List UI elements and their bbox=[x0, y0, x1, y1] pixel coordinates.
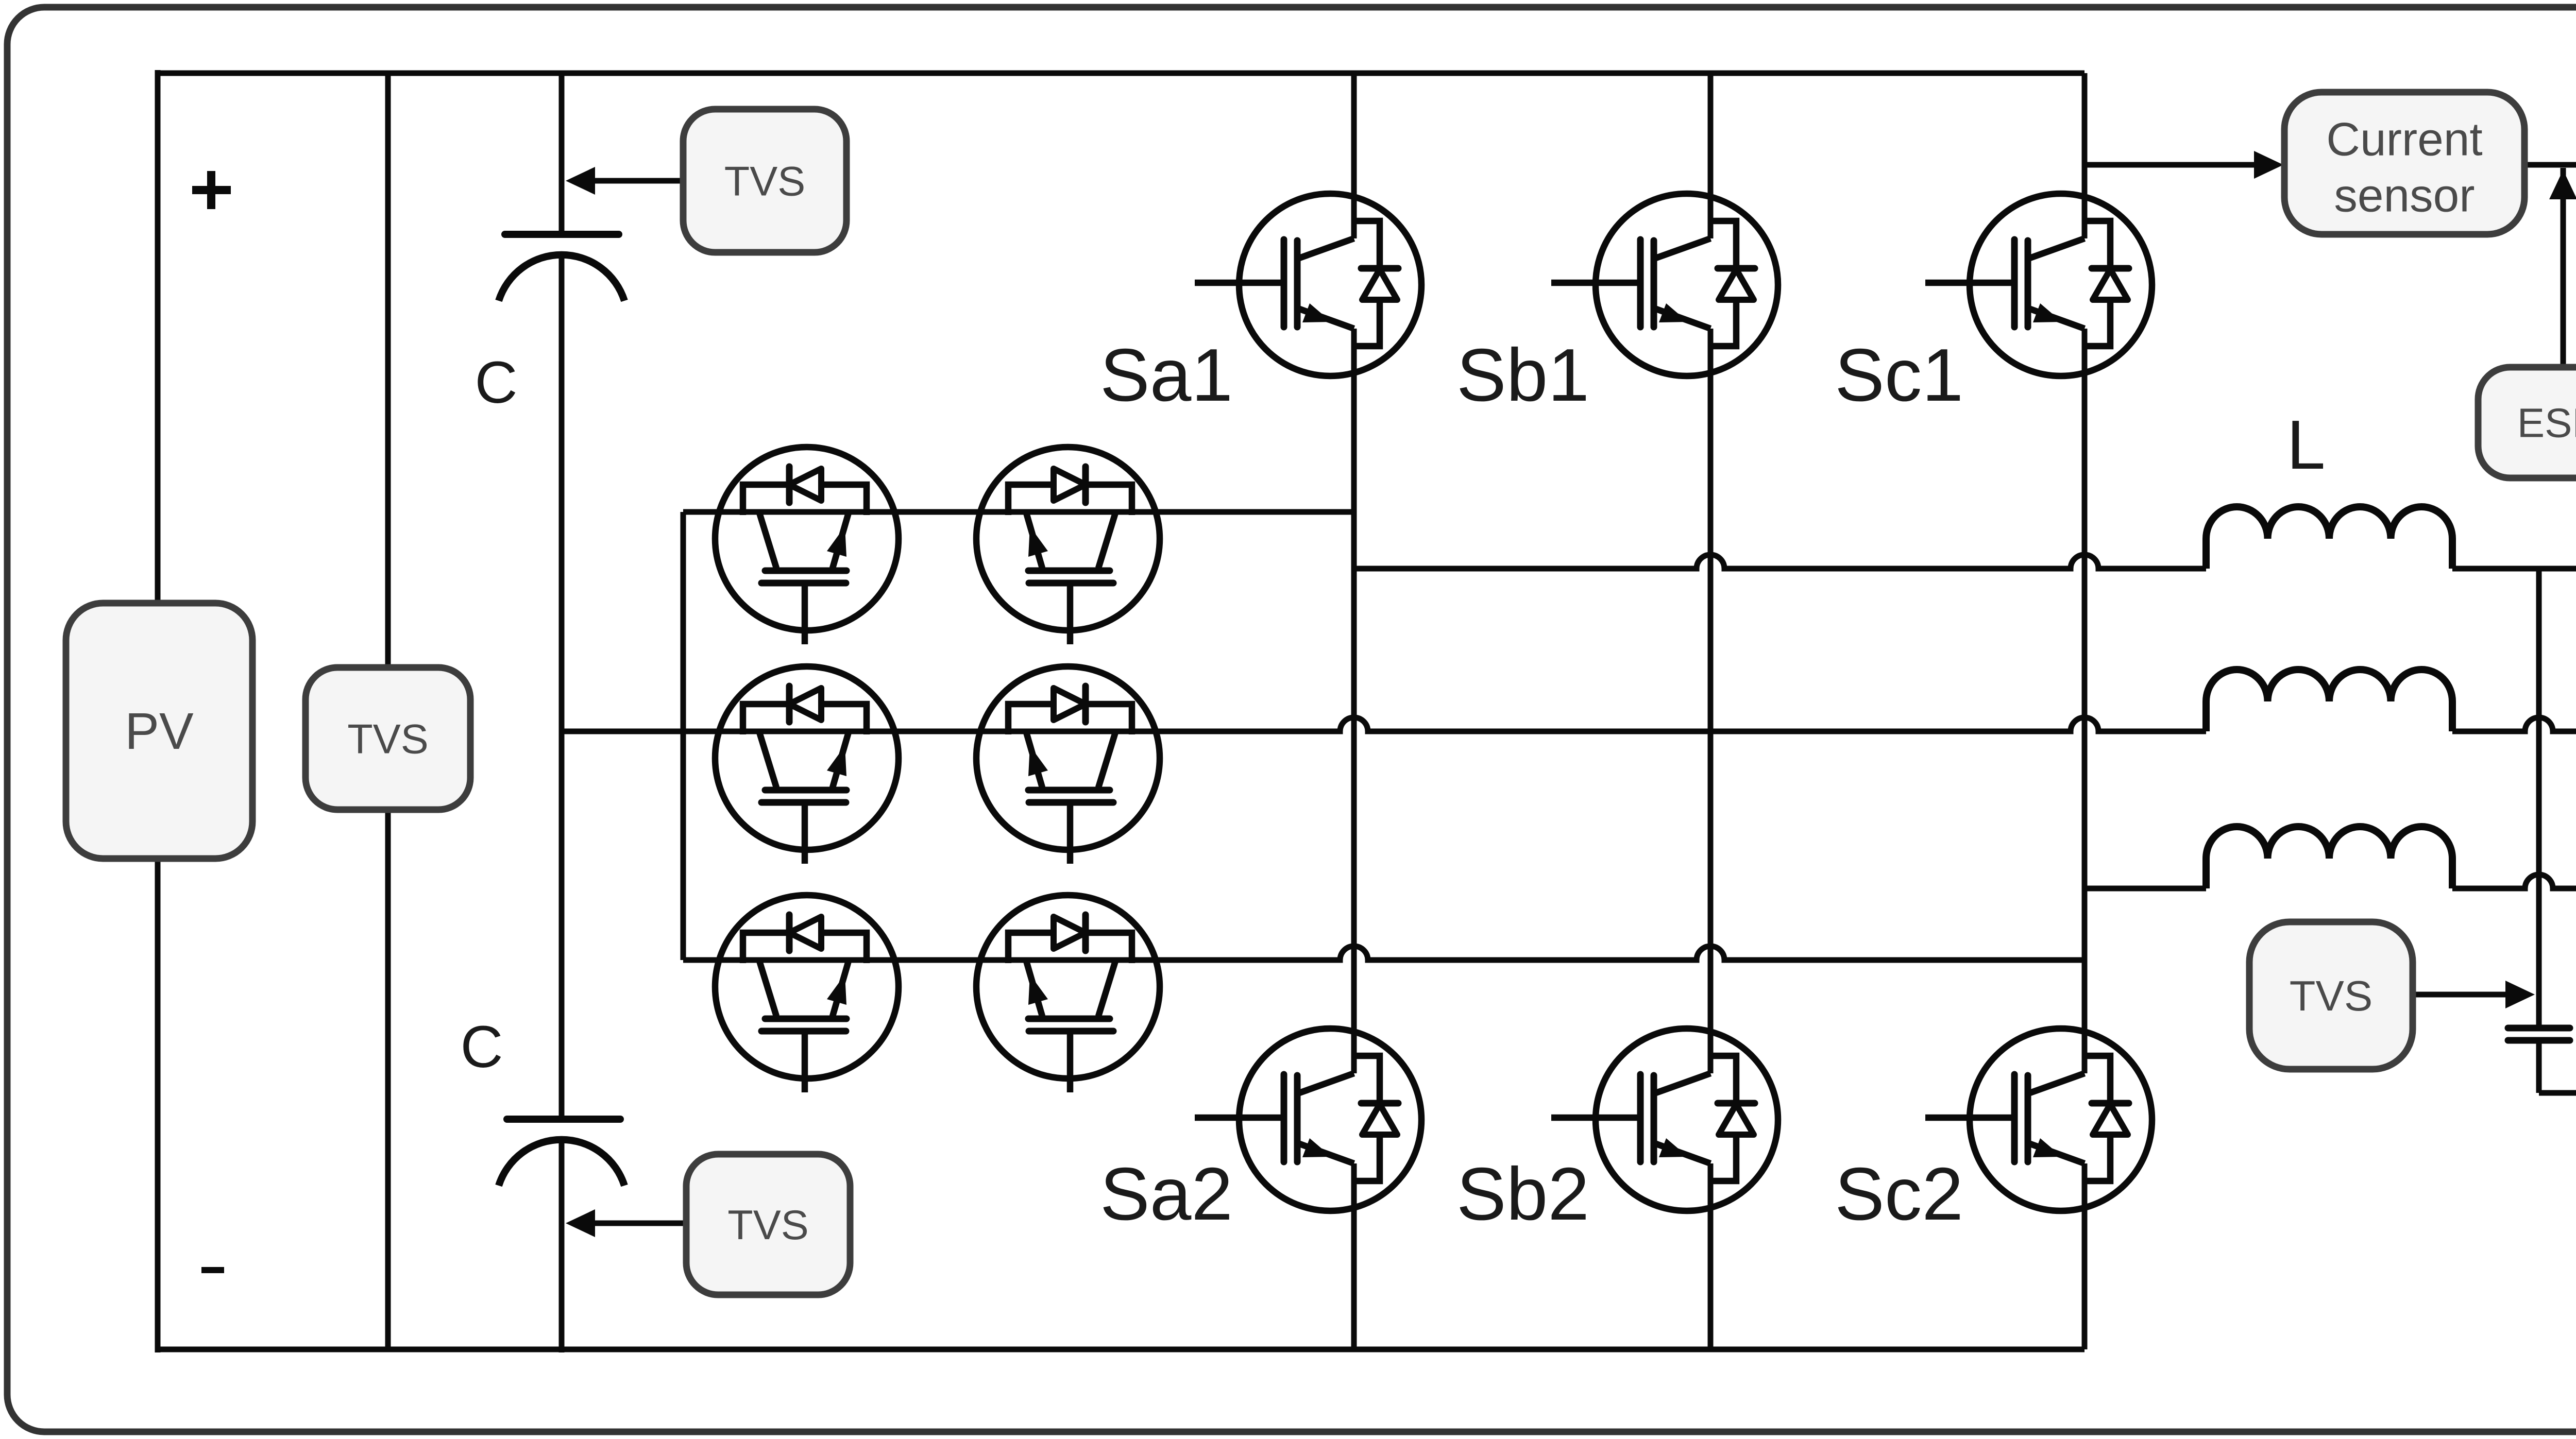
wire phase C leg upper bbox=[2082, 73, 2088, 238]
block TVS upper bbox=[683, 109, 846, 252]
inductor Lc bbox=[2206, 827, 2452, 888]
svg-text:TVS: TVS bbox=[727, 1202, 809, 1248]
capacitor C lower DC-link bbox=[499, 1119, 624, 1186]
svg-text:TVS: TVS bbox=[347, 716, 429, 762]
svg-text:L: L bbox=[2286, 406, 2325, 484]
wire TVS top arrow lead bbox=[592, 178, 683, 184]
block TVS shunt bbox=[306, 667, 470, 810]
wire cap rail upper bbox=[559, 73, 565, 232]
bidirectional switch Q1R (reverse-blocking IGBT, diode right) bbox=[976, 447, 1160, 644]
transistor Sb2 (IGBT with antiparallel diode) bbox=[1551, 1029, 1778, 1211]
transistor Sb1 (IGBT with antiparallel diode) bbox=[1551, 194, 1778, 376]
svg-text:ESD: ESD bbox=[2517, 400, 2576, 446]
svg-text:TVS: TVS bbox=[2290, 972, 2372, 1020]
wire neutral left bus bbox=[681, 512, 686, 960]
block TVS lower bbox=[686, 1154, 850, 1295]
arrowhead TVS bottom-right bbox=[2505, 981, 2535, 1008]
wire TVS bottom-left arrow lead bbox=[592, 1221, 686, 1226]
wire top DC+ bus bbox=[158, 71, 2084, 76]
wire phase C output left bbox=[2084, 886, 2206, 892]
wire phase A leg lower bbox=[1351, 1163, 1357, 1349]
wire phase A output right bbox=[2452, 566, 2576, 572]
svg-text:C: C bbox=[460, 1014, 503, 1080]
transistor Sa1 (IGBT with antiparallel diode) bbox=[1195, 194, 1421, 376]
wire phase A leg upper bbox=[1351, 73, 1357, 238]
wire phase A leg middle bbox=[1351, 329, 1357, 1073]
transistor Sc2 (IGBT with antiparallel diode) bbox=[1925, 1029, 2152, 1211]
inductor La bbox=[2206, 507, 2452, 569]
wire TVS branch upper bbox=[385, 73, 391, 667]
bidirectional switch Q3L (reverse-blocking IGBT, diode left) bbox=[715, 895, 899, 1092]
wire phase A output left bbox=[1354, 555, 2206, 569]
wire phase C leg lower bbox=[2082, 1163, 2088, 1349]
label plus terminal bbox=[192, 171, 231, 209]
wire TVS branch lower bbox=[385, 810, 391, 1349]
block ESD bbox=[2478, 367, 2576, 478]
wire ESD riser bbox=[2561, 168, 2566, 367]
arrowhead ESD up bbox=[2549, 170, 2576, 199]
wire phase B leg upper bbox=[1708, 73, 1714, 238]
svg-text:Sb2: Sb2 bbox=[1456, 1152, 1589, 1236]
label minus terminal bbox=[201, 1267, 224, 1273]
svg-text:Sc1: Sc1 bbox=[1835, 333, 1963, 417]
wire Cfa branch lower bbox=[2536, 1043, 2542, 1093]
wire PV positive riser bbox=[155, 70, 161, 603]
wire phase C leg middle bbox=[2082, 329, 2088, 1073]
svg-text:Sc2: Sc2 bbox=[1835, 1152, 1963, 1236]
inductor Lb bbox=[2206, 670, 2452, 731]
wire phase B leg lower bbox=[1708, 1163, 1714, 1349]
bidirectional switch Q1L (reverse-blocking IGBT, diode left) bbox=[715, 447, 899, 644]
svg-text:Current: Current bbox=[2326, 114, 2482, 166]
block PV source bbox=[66, 603, 252, 859]
arrowhead into current sensor bbox=[2254, 151, 2283, 179]
arrowhead TVS bottom-left bbox=[566, 1209, 595, 1237]
block TVS output bbox=[2249, 922, 2413, 1069]
wire filter cap bottom bus bbox=[2539, 1090, 2576, 1096]
svg-text:Sb1: Sb1 bbox=[1456, 333, 1589, 417]
capacitor C upper DC-link bbox=[499, 234, 624, 301]
wire TVS bottom-right arrow lead bbox=[2413, 992, 2508, 998]
wire phase B output right bbox=[2452, 717, 2576, 731]
wire cap rail middle bbox=[559, 256, 565, 1117]
transistor Sc1 (IGBT with antiparallel diode) bbox=[1925, 194, 2152, 376]
capacitor Cfa bbox=[2508, 1028, 2570, 1040]
wire row2 / phase B left bbox=[562, 717, 2206, 731]
wire PV negative riser bbox=[155, 859, 161, 1352]
svg-text:TVS: TVS bbox=[724, 158, 806, 204]
bidirectional switch Q2L (reverse-blocking IGBT, diode left) bbox=[715, 666, 899, 864]
wire phase C output right bbox=[2452, 875, 2576, 888]
svg-text:C: C bbox=[474, 350, 517, 416]
bidirectional switch Q3R (reverse-blocking IGBT, diode right) bbox=[976, 895, 1160, 1092]
wire phase B leg middle bbox=[1708, 329, 1714, 1073]
bidirectional switch Q2R (reverse-blocking IGBT, diode right) bbox=[976, 666, 1160, 864]
svg-text:PV: PV bbox=[125, 703, 194, 760]
svg-text:sensor: sensor bbox=[2334, 170, 2475, 222]
svg-text:Sa2: Sa2 bbox=[1100, 1152, 1233, 1236]
wire row3 to phase C bbox=[683, 946, 2084, 960]
wire sensor to MCU bbox=[2524, 162, 2576, 168]
arrowhead TVS top (left) bbox=[566, 167, 595, 195]
wire Cfa branch upper bbox=[2536, 569, 2542, 1025]
wire bottom DC- bus bbox=[158, 1347, 2084, 1352]
transistor Sa2 (IGBT with antiparallel diode) bbox=[1195, 1029, 1421, 1211]
wire current-sense feed bbox=[2084, 162, 2259, 168]
wire row1 to phase A bbox=[683, 509, 1354, 515]
block current sensor bbox=[2284, 92, 2524, 234]
svg-text:Sa1: Sa1 bbox=[1100, 333, 1233, 417]
wire cap rail lower bbox=[559, 1139, 565, 1352]
